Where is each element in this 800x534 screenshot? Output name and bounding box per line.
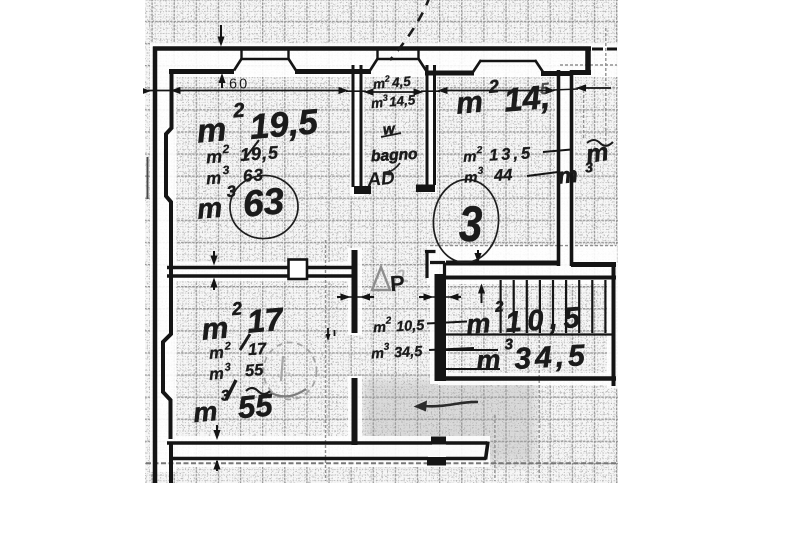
svg-text:m: m (192, 396, 219, 428)
dim right short (578, 87, 611, 89)
dim room14 (440, 90, 553, 92)
v-wall pair (337, 296, 346, 298)
svg-text:m: m (205, 168, 221, 188)
bagno left wall double (352, 65, 355, 187)
svg-text:44: 44 (493, 166, 513, 185)
60 up arrow (221, 77, 223, 88)
svg-text:60: 60 (229, 77, 249, 93)
left outer wall (153, 47, 158, 484)
top outer wall (153, 46, 591, 51)
svg-text:34,5: 34,5 (513, 339, 589, 376)
thick wall pair (419, 296, 429, 298)
vertical wall room17/hall lower (352, 378, 358, 445)
svg-text:17: 17 (247, 340, 267, 359)
stairs top line (440, 276, 616, 280)
svg-text:17: 17 (246, 301, 287, 340)
svg-text:3: 3 (382, 93, 388, 103)
door small arrow (327, 328, 329, 337)
svg-text:63: 63 (241, 180, 286, 224)
top wall inner line segments (169, 69, 234, 74)
svg-text:10,5: 10,5 (504, 301, 586, 339)
pencil circle room17 (264, 343, 317, 400)
svg-text:m: m (371, 346, 385, 363)
svg-text:3: 3 (224, 361, 231, 373)
svg-text:m: m (373, 320, 387, 337)
stair treads (501, 280, 606, 333)
room3 bottom wall (446, 261, 557, 266)
room14 right wall double (557, 70, 561, 266)
svg-text:bagno: bagno (371, 146, 418, 165)
leader stroke big to small 19,5 (243, 140, 259, 161)
stair jamb (425, 250, 445, 278)
right top ledge + stub (570, 70, 591, 75)
dark dashed grid line under pier (146, 462, 616, 464)
big m2 10,5 (465, 292, 587, 341)
pier bumps on bottom wall (431, 437, 446, 445)
corridor top wall right segment (571, 262, 616, 267)
room17 big (199, 295, 286, 347)
stairs up arrow (481, 288, 483, 303)
dashed leader curve top (390, 0, 430, 60)
white halos under walls (scan look) (150, 43, 619, 472)
bagno texts (372, 72, 412, 92)
ticks middle wall (213, 251, 215, 262)
room1 small m2 19,5 (205, 138, 280, 167)
svg-text:34,5: 34,5 (394, 344, 424, 362)
svg-text:13,5: 13,5 (489, 144, 534, 164)
svg-text:m: m (205, 146, 222, 167)
svg-text:3: 3 (383, 342, 390, 353)
dim room1 (148, 90, 346, 92)
svg-text:P: P (389, 270, 405, 296)
big m3 34,5 (475, 332, 589, 378)
svg-text:2: 2 (231, 99, 245, 122)
window A sill (241, 58, 289, 61)
bagno wall feet (354, 186, 371, 194)
svg-text:3: 3 (226, 183, 236, 201)
graph paper grid (145, 0, 618, 483)
pencil triangle P (372, 267, 390, 290)
svg-text:m: m (476, 345, 502, 376)
leader lines (427, 150, 571, 351)
svg-text:m: m (464, 169, 478, 187)
stair left thick wall (435, 274, 447, 381)
bottom ticks (216, 425, 218, 436)
svg-text:10,5: 10,5 (396, 318, 426, 336)
svg-text:14,5: 14,5 (388, 92, 416, 109)
bottom wall upper line (167, 441, 432, 445)
door box on middle wall (289, 260, 308, 280)
stair landing division line (446, 333, 613, 335)
left wall inner line with jogs (163, 70, 172, 484)
room17 small m3 55 (208, 359, 265, 384)
svg-text:2: 2 (494, 298, 505, 316)
svg-text:m: m (465, 308, 491, 340)
m2 13,5 (463, 142, 534, 166)
svg-text:2: 2 (223, 340, 231, 352)
svg-text:2: 2 (230, 298, 243, 319)
arrowheads (217, 37, 224, 47)
svg-text:m: m (557, 162, 579, 189)
svg-text:3: 3 (504, 336, 514, 353)
right cap of bottom wall (486, 442, 489, 460)
window B sill (bagno) (377, 58, 419, 61)
svg-text:3: 3 (477, 166, 484, 177)
svg-text:2: 2 (383, 73, 390, 83)
hall small m3 34,5 (371, 340, 424, 363)
svg-text:m: m (209, 344, 225, 363)
gray wash landing corridor (363, 379, 536, 463)
room17 small m2 17 (208, 338, 267, 363)
room1 big m2 19,5 (194, 93, 319, 151)
svg-text:2: 2 (487, 76, 500, 97)
darker grid accent lines (326, 28, 618, 481)
middle wall room1/room17 double (167, 266, 288, 270)
room17 big m3 55 (191, 383, 274, 429)
room1 small m3 63 (205, 160, 264, 188)
top down arrow (220, 25, 222, 42)
svg-text:3: 3 (222, 163, 230, 177)
vertical wall room17/hall upper (352, 250, 358, 333)
window C sill (room 14) (480, 60, 536, 63)
m3 44 (464, 164, 513, 187)
bagno right wall double (426, 65, 429, 185)
dim bagno (366, 91, 421, 93)
room1 big m3 63 (195, 179, 286, 228)
svg-text:m: m (455, 86, 484, 121)
stair right edge (612, 265, 616, 386)
balcony line left (147, 157, 149, 199)
svg-text:3: 3 (459, 196, 483, 252)
svg-text:4,5: 4,5 (390, 74, 411, 91)
svg-text:2: 2 (384, 315, 392, 326)
lower step lines (446, 350, 500, 369)
svg-text:19,5: 19,5 (239, 142, 279, 165)
stair bottom wall (440, 376, 616, 381)
room14 big (454, 72, 552, 123)
svg-text:m: m (209, 365, 225, 384)
svg-text:2: 2 (476, 145, 484, 156)
svg-text:m: m (463, 148, 477, 166)
svg-text:m: m (196, 192, 224, 225)
svg-text:55: 55 (244, 361, 264, 380)
pencil squiggle near hall wall (398, 271, 408, 282)
bottom wall lower line (170, 457, 428, 461)
big hand arrow pointing left (424, 402, 478, 406)
svg-text:2: 2 (221, 142, 230, 157)
ticks corridor wall (477, 250, 479, 259)
hall small m2 10,5 (373, 314, 426, 337)
